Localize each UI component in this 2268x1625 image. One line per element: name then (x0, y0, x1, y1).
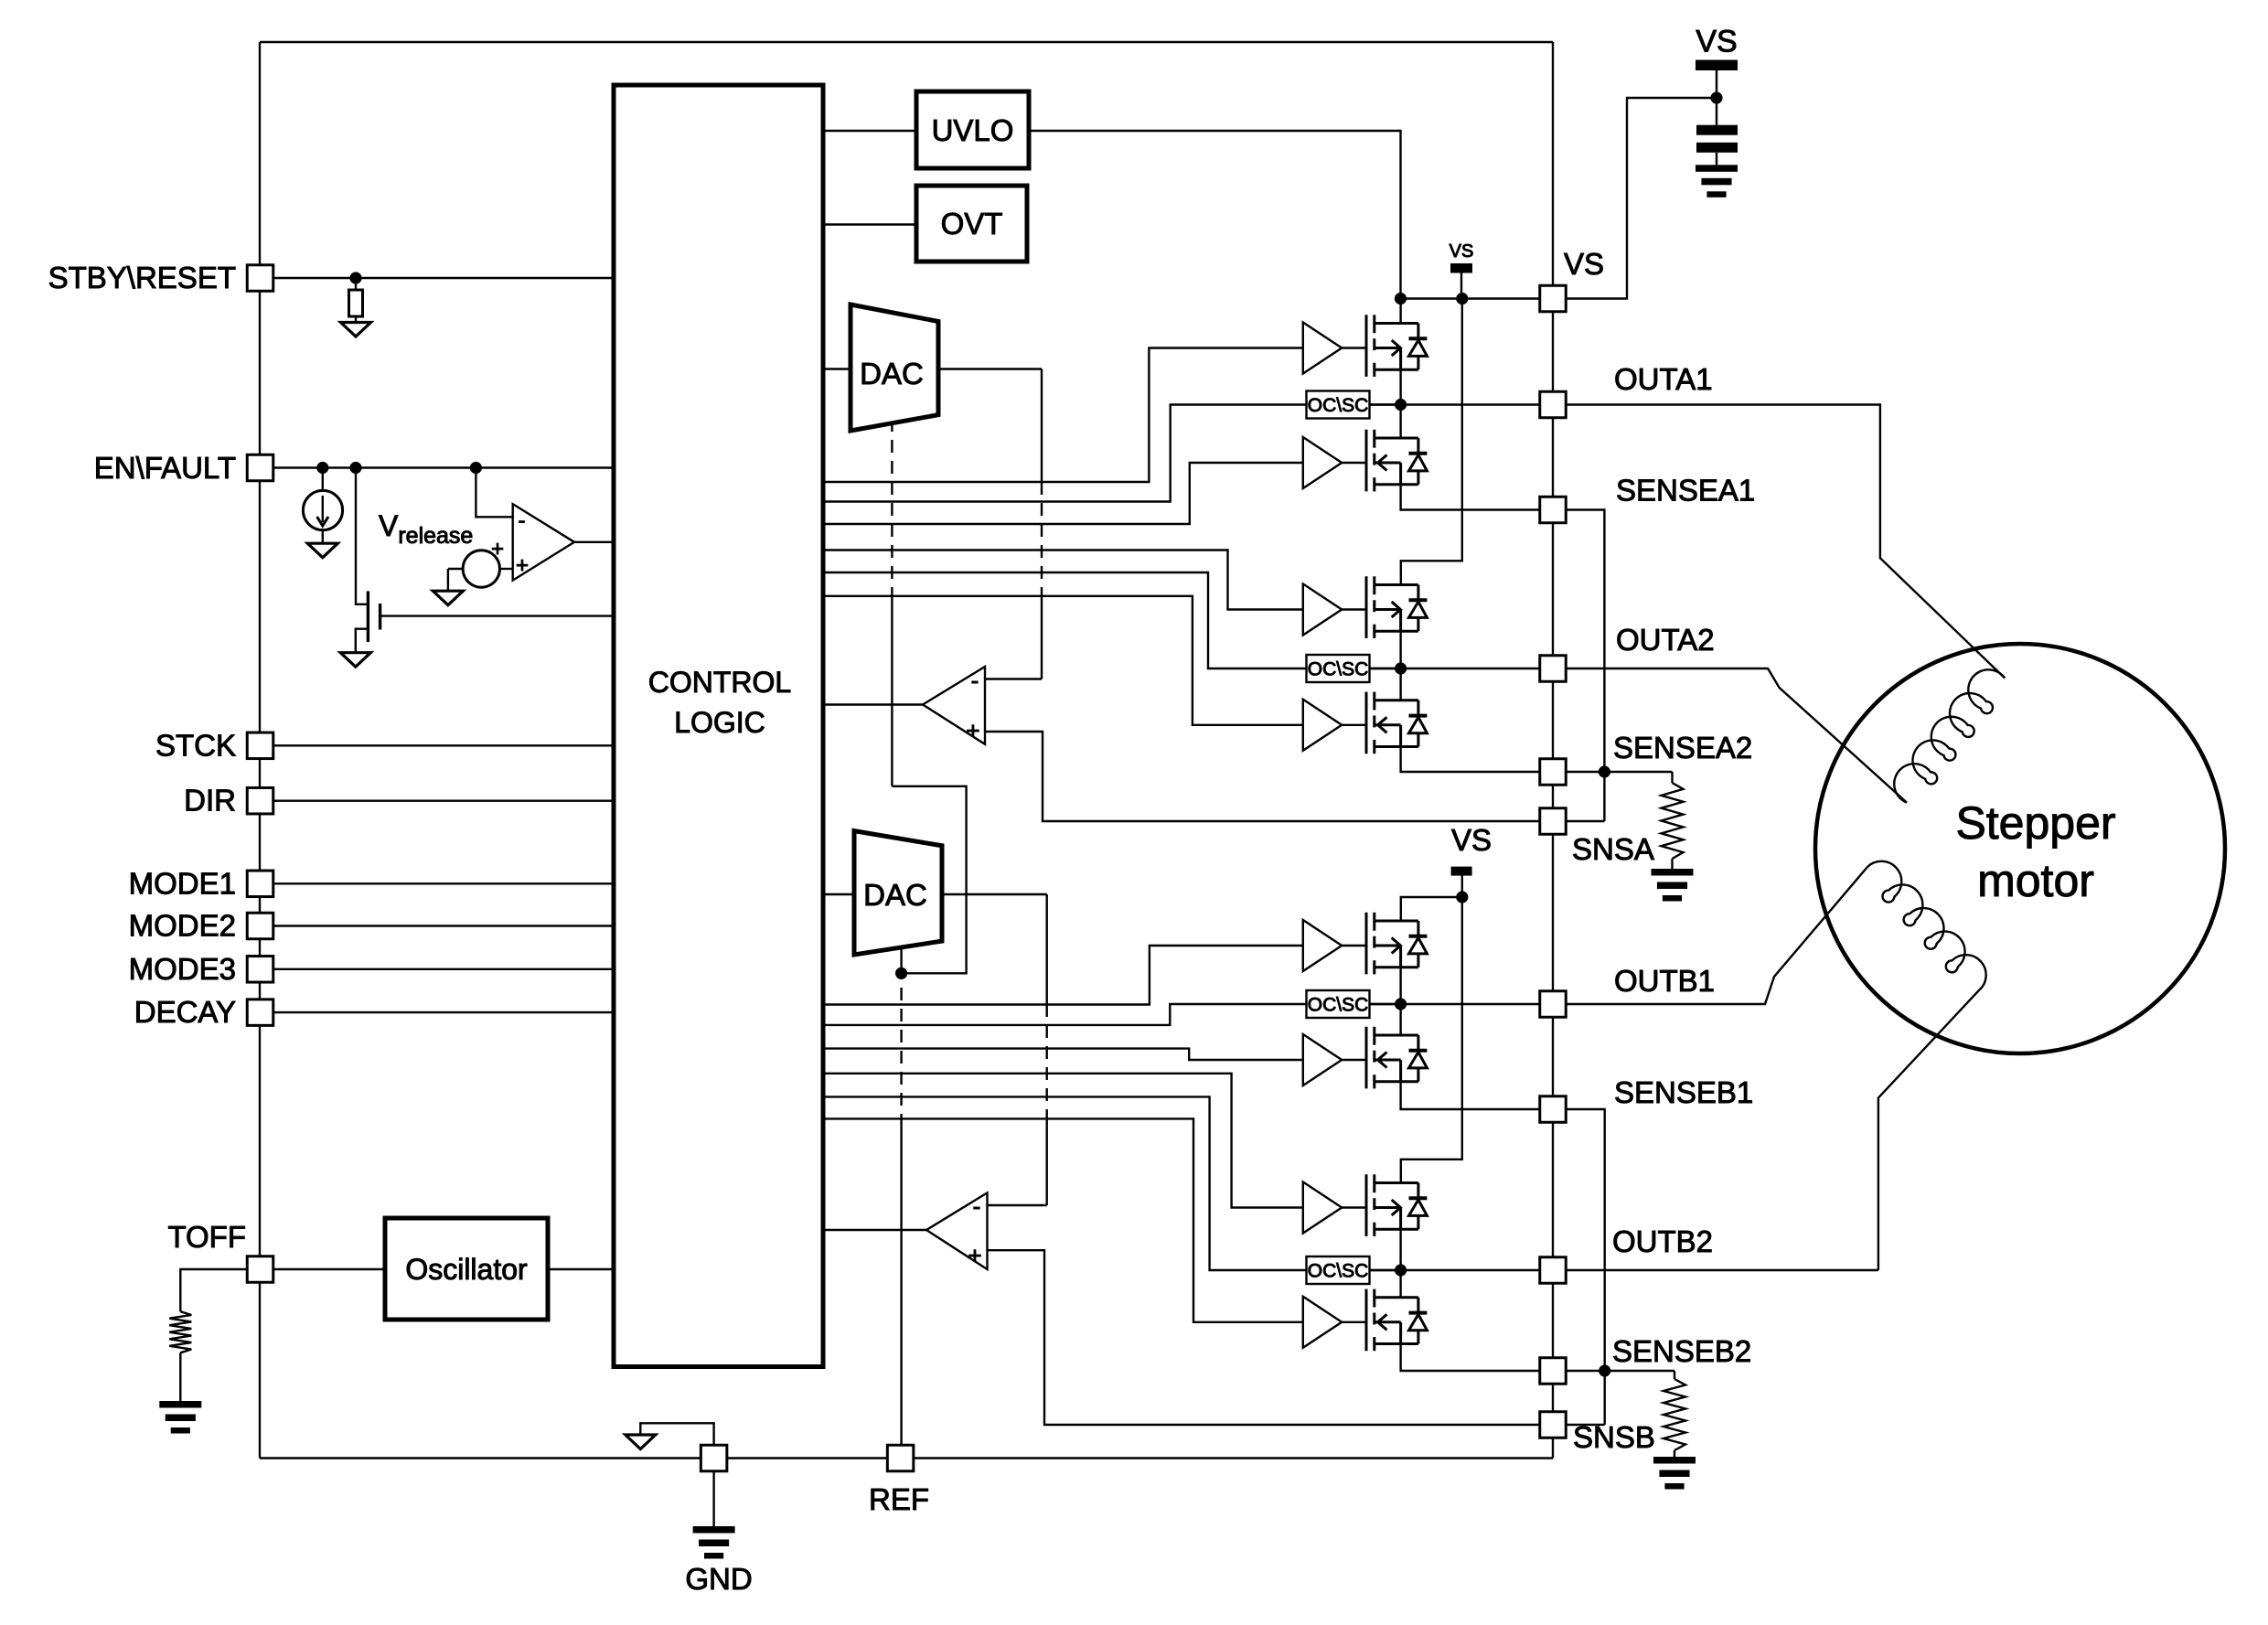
pin MODE2 (247, 913, 273, 939)
wire: A1 low drain to OUTA1 node (1399, 405, 1401, 439)
svg-text:OUTA2: OUTA2 (1616, 623, 1715, 657)
current source on EN\FAULT (322, 468, 324, 491)
wire: rail OUTA2 to SENSEA2 (1552, 681, 1554, 759)
svg-text:SENSEB1: SENSEB1 (1614, 1075, 1753, 1109)
transistor Q A high-side (1366, 315, 1427, 377)
wire: SENSEB1 to sense node B (1566, 1109, 1605, 1425)
wire: control to UVLO (823, 130, 916, 132)
wire: OUTA1 to motor coil A (1566, 405, 2005, 679)
svg-text:-: - (519, 508, 526, 533)
gate driver for Q-A2-low (1303, 700, 1366, 751)
svg-text:MODE3: MODE3 (129, 952, 236, 986)
pin SNSA (1540, 808, 1567, 835)
svg-text:CONTROL: CONTROL (648, 666, 791, 699)
wire: rail SNSA to OUTB1 (1552, 834, 1554, 991)
wire: VS feed to A2 high drain (1401, 299, 1462, 585)
svg-text:GND: GND (685, 1562, 752, 1596)
wire: A1 low source to SENSEA1 (1401, 485, 1540, 510)
resistor R pulldown on STBY (355, 278, 357, 290)
pin GND (701, 1445, 727, 1471)
ground arrow for STBY resistor (341, 323, 371, 337)
wire: B high source to OUTB1 node (1399, 968, 1401, 1004)
pin EN\FAULT (247, 454, 273, 481)
svg-text:OC\SC: OC\SC (1308, 395, 1369, 416)
junction VS supply (1710, 91, 1722, 103)
wire: OUTB1 to motor coil B (1566, 867, 1867, 1004)
svg-text:-: - (973, 1192, 981, 1220)
wire: control bus A6 to A2 low-side gate driver input (823, 596, 1303, 725)
svg-text:motor: motor (1977, 855, 2094, 906)
DAC A block (850, 305, 938, 431)
junction OUTB1 node (1395, 998, 1407, 1010)
wire: OUTA2 to motor coil A (1566, 668, 1907, 803)
OC\SC block B2 (1307, 1256, 1370, 1284)
junction sense node A (1599, 765, 1610, 777)
OC\SC block A1 (1307, 391, 1370, 419)
wire: A high source to OUTA1 node (1399, 369, 1401, 404)
pin SENSEB1 (1540, 1096, 1567, 1123)
pin STCK (247, 732, 273, 759)
svg-text:OC\SC: OC\SC (1308, 1261, 1369, 1282)
motor coil A (1894, 669, 2005, 802)
ground for capacitor (1696, 165, 1738, 198)
wire: MODE2 to control (273, 925, 615, 926)
motor coil B (1867, 861, 1986, 990)
wire: control bus A4 to A2 high-side gate driver input (823, 551, 1303, 610)
OVT block (916, 186, 1027, 262)
transistor Q1 fault pulldown (356, 468, 368, 604)
svg-text:VS: VS (1564, 247, 1604, 281)
OC\SC block A2 (1307, 655, 1370, 682)
wire: DIR to control (273, 800, 615, 802)
svg-text:UVLO: UVLO (932, 113, 1014, 147)
wire: REF line to DAC B (node REF) (900, 1127, 902, 1445)
wire: control bus B4 to B2 high-side gate driver input (823, 1074, 1303, 1208)
ground for R snsA (1652, 869, 1694, 902)
pin OUTB2 (1540, 1257, 1567, 1284)
wire: SENSEB2 pin to sense node B (1566, 1370, 1605, 1372)
wire: bottom ground wire (260, 1457, 1553, 1459)
svg-text:MODE2: MODE2 (129, 909, 236, 943)
wire: OUTA2 node to pin (1370, 668, 1541, 669)
DAC B block (854, 831, 942, 955)
comparator U2 release detect (513, 504, 574, 581)
wire: rail OUTB1 to SENSEB1 (1552, 1017, 1554, 1096)
wire: left input bus (259, 42, 261, 1459)
svg-text:OC\SC: OC\SC (1308, 659, 1369, 680)
ground for TOFF resistor (159, 1401, 201, 1434)
wire: rail OUTA1 to SENSEA1 (1552, 418, 1554, 497)
ground symbol at GND pin (712, 1471, 714, 1526)
wire: rail between VS pin and OUTA1 pin (1552, 312, 1554, 392)
stepper motor body (1815, 644, 2225, 1053)
UVLO block (916, 91, 1029, 168)
svg-text:+: + (966, 717, 979, 744)
svg-text:LOGIC: LOGIC (674, 706, 765, 739)
oscillator block (385, 1218, 548, 1320)
svg-text:SENSEA2: SENSEA2 (1613, 731, 1752, 764)
wire: OC\SC B1 to output node (1370, 1003, 1401, 1005)
capacitor C vs (bulk) (1696, 125, 1738, 135)
wire: B2 high source to OUTB2 node (1399, 1229, 1401, 1270)
wire: sense node A to resistor (1604, 771, 1672, 773)
pin MODE1 (247, 871, 273, 897)
wire: control bus A2 to OC\SC A1 input (823, 405, 1307, 502)
svg-text:VS: VS (1450, 241, 1474, 262)
wire: OUTB1 node to pin (1370, 1003, 1541, 1005)
resistor R snsB (1674, 1371, 1675, 1379)
wire: comparator U2 output to control (574, 541, 614, 543)
junction EN node 3 (470, 462, 482, 474)
pin SENSEA2 (1540, 759, 1567, 786)
pin DECAY (247, 1000, 273, 1026)
svg-text:DAC: DAC (860, 357, 924, 390)
svg-text:DIR: DIR (184, 784, 236, 818)
svg-text:STCK: STCK (155, 728, 236, 762)
pin SENSEB2 (1540, 1358, 1567, 1384)
wire: comparator A + input from SNSA (985, 732, 1540, 821)
svg-text:DECAY: DECAY (134, 995, 236, 1029)
wire: B1 low drain to OUTB1 node (1399, 1004, 1401, 1035)
wire: comparator B + input from SNSB (988, 1250, 1541, 1425)
svg-text:OC\SC: OC\SC (1308, 995, 1369, 1016)
signal ground arrow at GND pin (640, 1423, 713, 1445)
wire: STBY\RESET to control (273, 277, 615, 279)
junction EN node 1 (316, 462, 328, 474)
wire: UVLO output to VS rail (1029, 131, 1401, 299)
svg-text:Stepper: Stepper (1955, 797, 2115, 849)
wire: DAC B bottom to REF node (900, 947, 902, 973)
svg-text:EN\FAULT: EN\FAULT (94, 451, 236, 485)
pin OUTB1 (1540, 991, 1567, 1018)
ground arrow for Vrelease (433, 591, 463, 605)
wire: control bus B2 to OC\SC B1 input (823, 1004, 1307, 1025)
wire: A high drain to VS rail (1399, 299, 1401, 324)
pin VS (1540, 285, 1567, 312)
wire: STCK to control (273, 744, 615, 746)
junction VS B (1456, 891, 1468, 903)
junction sense node B (1599, 1364, 1610, 1376)
wire: oscillator to control (548, 1268, 614, 1270)
svg-text:SNSA: SNSA (1572, 832, 1654, 866)
wire: sense node B to resistor (1605, 1370, 1674, 1372)
pin OUTA2 (1540, 656, 1567, 682)
wire: comparator B output to control (823, 1229, 926, 1231)
wire: OUTB2 to motor coil B (1566, 1269, 1878, 1271)
wire: rail SENSEB2 to SNSB (1552, 1384, 1554, 1412)
wire: OC\SC B2 to output node (1370, 1269, 1401, 1271)
transistor Q A1 low-side (1366, 430, 1427, 492)
wire: comparator A output to control (823, 703, 923, 705)
ground for R snsB (1653, 1457, 1696, 1490)
wire: A2 low drain to OUTA2 node (1399, 668, 1401, 700)
OC\SC block B1 (1307, 990, 1370, 1018)
svg-text:+: + (491, 537, 504, 561)
svg-text:REF: REF (869, 1482, 929, 1516)
svg-text:+: + (968, 1242, 981, 1269)
transistor Q B2 low-side (1366, 1289, 1427, 1352)
wire: B2 low drain to OUTB2 node (1399, 1270, 1401, 1298)
svg-text:Oscillator: Oscillator (405, 1253, 528, 1286)
resistor R snsA (1671, 772, 1673, 783)
wire: DAC B output to comparator B inverting input (942, 893, 1047, 895)
voltage source Vrelease (463, 551, 499, 587)
svg-text:VS: VS (1451, 823, 1492, 857)
wire: VS B to B high drain (1401, 897, 1462, 921)
wire: control bus B6 to B2 low-side gate driver input (823, 1118, 1303, 1321)
svg-text:SENSEB2: SENSEB2 (1612, 1334, 1751, 1368)
wire: SENSEA2 pin to sense node A (1566, 771, 1604, 773)
control logic block U1 (614, 85, 823, 1367)
svg-text:DAC: DAC (863, 878, 927, 912)
wire: OC\SC A1 to output node (1370, 403, 1401, 405)
wire: control bus A1 to A high-side gate driver input (823, 348, 1303, 483)
ground arrow for current source (307, 543, 337, 558)
junction VS rail A2 feed (1456, 293, 1468, 305)
gate driver for Q-B2-high (1303, 1182, 1366, 1234)
svg-text:OUTA1: OUTA1 (1614, 362, 1713, 396)
wire: Q1 gate to control (380, 615, 614, 616)
wire: control bus A5 to OC\SC A2 input (823, 572, 1307, 668)
comparator B (current sense B) (926, 1192, 988, 1269)
pin STBY\RESET (247, 265, 273, 292)
wire: SNSB rail to bottom wire (1552, 1438, 1554, 1458)
wire: VS pin to external supply (1566, 98, 1717, 299)
wire: control bus B1 to B high-side gate driver input (823, 946, 1303, 1005)
gate driver for Q-A2-high (1303, 584, 1366, 636)
transistor Q A2 high-side (1366, 576, 1427, 638)
svg-text:SENSEA1: SENSEA1 (1616, 474, 1755, 508)
wire: control bus B3 to B1 low-side gate driver input (823, 1049, 1303, 1060)
pin SNSB (1540, 1412, 1567, 1438)
svg-text:MODE1: MODE1 (129, 866, 236, 900)
wire: DAC A output to comparator A inverting input (938, 368, 1042, 369)
wire: OUTB2 node to pin (1370, 1269, 1541, 1271)
transistor Q B high-side (1366, 913, 1427, 975)
comparator A (current sense A) (923, 667, 985, 744)
wire: control to OVT (823, 223, 916, 225)
wire: OC\SC A2 to output node (1370, 668, 1401, 669)
pin OUTA1 (1540, 391, 1567, 418)
wire: EN\FAULT to control (273, 466, 615, 468)
wire: control to DAC A (823, 368, 850, 369)
wire: DECAY to control (273, 1011, 615, 1013)
pin REF (887, 1445, 914, 1471)
wire: MODE1 to control (273, 882, 615, 884)
wire: EN node to comparator - input (476, 468, 512, 518)
wire: B1 low source to SENSEB1 (1401, 1082, 1540, 1109)
wire: B2 low source to SENSEB2 (1401, 1344, 1540, 1372)
junction EN node 2 (349, 462, 361, 474)
wire: VS B to B2 high drain (1401, 897, 1462, 1183)
wire: OUTA1 node to pin (1370, 403, 1541, 405)
svg-text:OUTB2: OUTB2 (1612, 1224, 1713, 1258)
wire: control bus B5 to OC\SC B2 input (823, 1096, 1307, 1270)
pin MODE3 (247, 957, 273, 983)
wire: SNSA pin to sense node A (1566, 820, 1604, 822)
wire: rail SENSEA2 to SNSA (1552, 785, 1554, 808)
junction OUTA2 node (1395, 662, 1407, 674)
svg-text:OUTB1: OUTB1 (1614, 964, 1715, 998)
wire: right pin rail (1552, 42, 1554, 286)
junction OUTB2 node (1395, 1264, 1407, 1276)
pin DIR (247, 787, 273, 814)
wire: MODE3 to control (273, 968, 615, 970)
transistor Q B2 high-side (1366, 1174, 1427, 1236)
gate driver for Q-A1-low (1303, 437, 1366, 488)
svg-text:TOFF: TOFF (167, 1220, 246, 1254)
wire: rail SENSEB1 to OUTB2 (1552, 1122, 1554, 1257)
wire: A2 high source to OUTA2 node (1399, 631, 1401, 668)
svg-text:+: + (516, 553, 529, 578)
gate driver for Q-B1-low (1303, 1034, 1366, 1085)
svg-text:VS: VS (1696, 25, 1737, 59)
transistor Q A2 low-side (1366, 692, 1427, 754)
wire: rail OUTB2 to SENSEB2 (1552, 1283, 1554, 1358)
gate driver for Q-B-high (1303, 920, 1366, 971)
junction REF node at DAC B (895, 968, 907, 979)
gate driver for Q-B2-low (1303, 1297, 1366, 1348)
wire: rail SENSEA1 to OUTA2 (1552, 523, 1554, 656)
wire: SENSEA1 to sense node A (1566, 510, 1604, 822)
wire: VS rail to VS pin (1401, 297, 1541, 299)
svg-text:-: - (971, 667, 979, 694)
junction VS rail A (1395, 293, 1407, 305)
wire: SNSB pin to sense node B (1566, 1424, 1605, 1426)
svg-text:OVT: OVT (941, 207, 1003, 241)
ground arrow for Q1 (340, 653, 370, 668)
wire: control to DAC B (823, 893, 854, 895)
gate driver for Q-A-high (1303, 323, 1366, 374)
svg-text:STBY\RESET: STBY\RESET (48, 261, 236, 294)
resistor R toff (180, 1269, 247, 1311)
junction OUTA1 node (1395, 399, 1407, 411)
wire: REF node elbow to DAC A bottom (892, 786, 966, 974)
wire: A2 low source to SENSEA2 (1401, 747, 1540, 773)
wire: TOFF to oscillator (273, 1268, 386, 1270)
pin SENSEA1 (1540, 497, 1567, 523)
wire: control bus A3 to A1 low-side gate driver input (823, 463, 1303, 524)
transistor Q B1 low-side (1366, 1027, 1427, 1089)
junction on STBY line (349, 272, 361, 283)
wire: top supply wire (260, 41, 1553, 43)
